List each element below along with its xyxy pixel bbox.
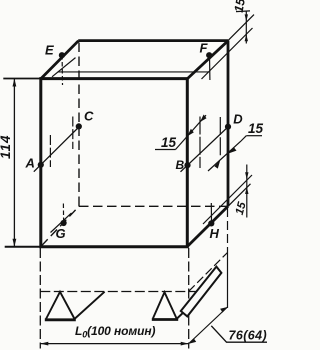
svg-text:15: 15 <box>161 135 177 150</box>
tick near C <box>72 117 74 150</box>
svg-text:B: B <box>176 158 185 172</box>
dim 15 H arrow lower <box>245 187 248 194</box>
hidden bottom-left diagonal edge <box>42 206 80 246</box>
tick2 near D <box>219 117 221 157</box>
svg-text:G: G <box>56 226 66 241</box>
left ridge <box>41 41 78 79</box>
svg-text:E: E <box>45 43 54 58</box>
dim 15 H arrow upper <box>245 172 248 179</box>
lower dashed right vertical <box>188 248 190 349</box>
point B dot <box>184 162 190 168</box>
back edge lower extension <box>227 208 229 250</box>
hidden back-left edge <box>78 43 80 207</box>
back right edge <box>227 41 230 207</box>
right support extension <box>177 301 196 319</box>
right ridge extension line <box>228 15 254 41</box>
top rear edge <box>78 39 228 42</box>
bottom right edge <box>187 206 228 246</box>
dimension 15 top-right crossbar <box>236 10 250 13</box>
dimension 114 arrow up <box>13 79 17 87</box>
tick near A <box>49 135 51 167</box>
svg-text:L0(100 номин): L0(100 номин) <box>75 324 156 340</box>
dim L0 arrow right <box>181 342 189 346</box>
dimension 76(64) line <box>189 307 228 344</box>
svg-text:H: H <box>210 226 220 241</box>
dim L0 arrow left <box>40 342 48 346</box>
dimension 15 right-of-D diagonal <box>208 136 246 171</box>
point H dot <box>208 220 214 226</box>
dim 76 arrow lower <box>189 338 196 344</box>
svg-text:A: A <box>25 156 35 171</box>
svg-text:D: D <box>233 111 243 126</box>
right support triangle <box>153 292 177 318</box>
point G dot <box>61 220 67 226</box>
point G slash <box>51 213 72 233</box>
dimension 15 near H line <box>246 165 248 218</box>
hidden depth diagonal lower right <box>189 253 228 292</box>
point H tick <box>210 203 212 222</box>
dimension 114 line <box>13 79 15 247</box>
point G tick <box>62 204 64 222</box>
slanted ruler bar <box>181 267 222 317</box>
point C dot <box>76 123 82 129</box>
bottom right edge extension line <box>228 184 251 207</box>
left support base <box>45 318 76 321</box>
dimension L0 line <box>40 343 188 345</box>
dim 15 D arrow upper <box>228 147 237 153</box>
dimension 15 right-of-D underline <box>246 135 262 137</box>
dim 15 B arrow at tick <box>200 115 207 123</box>
dimension 114 extension top <box>3 78 41 80</box>
dimension 15 left-of-B underline <box>155 149 176 151</box>
svg-text:114: 114 <box>0 134 13 159</box>
dim 76 arrow upper <box>220 307 227 313</box>
svg-text:76(64): 76(64) <box>229 329 268 343</box>
point F tick <box>209 55 211 81</box>
dim 15 B arrow at edge <box>187 129 194 137</box>
dimension 114 arrow down <box>13 239 17 247</box>
76(64) leader <box>211 326 267 342</box>
lower dashed left vertical <box>39 248 41 349</box>
dimension 15 left-of-B leader diagonal <box>176 115 207 149</box>
measurement line A-C <box>34 127 79 172</box>
point D dot <box>225 124 231 130</box>
dimension 15 top-right line <box>245 11 247 43</box>
measurement line B-D <box>181 127 229 172</box>
right ridge <box>188 41 228 79</box>
point E dot <box>59 52 65 58</box>
lower dashed horizontal <box>40 291 195 293</box>
hidden back-bottom edge <box>79 205 228 207</box>
point A dot <box>38 162 44 168</box>
left support extension <box>75 292 105 319</box>
svg-text:15: 15 <box>248 121 264 136</box>
svg-text:F: F <box>200 41 209 56</box>
dim 15 top-right arrow upper <box>245 14 248 21</box>
dim 15 D arrow lower <box>214 160 220 169</box>
point F dot <box>206 52 212 58</box>
F parallel extension line <box>202 28 253 79</box>
back edge lower extension solid part <box>227 250 229 308</box>
left support triangle <box>46 292 75 319</box>
tick1 near B <box>199 117 201 169</box>
svg-text:C: C <box>84 109 94 124</box>
H parallel extension line <box>203 175 252 224</box>
svg-text:15: 15 <box>232 0 248 14</box>
point E tick <box>61 55 63 85</box>
point E slash <box>52 58 76 77</box>
right support base <box>152 318 178 321</box>
front face outline <box>41 79 188 247</box>
measurement line E-F across top face <box>58 71 209 73</box>
dimension 114 extension bottom <box>5 246 41 248</box>
dim 15 top-right arrow lower <box>245 34 248 41</box>
